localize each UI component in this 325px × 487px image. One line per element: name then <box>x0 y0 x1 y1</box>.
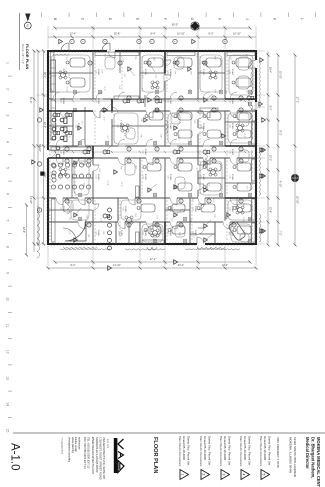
svg-text:8'-4": 8'-4" <box>150 32 155 36</box>
svg-text:1: 1 <box>77 128 79 129</box>
scattered dim texts <box>64 53 252 239</box>
svg-text:9'-2": 9'-2" <box>106 135 108 139</box>
project address <box>289 437 297 477</box>
dashed rugs <box>51 55 253 242</box>
exam tables <box>66 58 251 234</box>
svg-text:EXAM: EXAM <box>144 230 147 236</box>
svg-text:6'-8": 6'-8" <box>190 219 192 223</box>
svg-text:1: 1 <box>127 225 129 226</box>
svg-text:3'-0": 3'-0" <box>65 57 67 61</box>
svg-text:1: 1 <box>179 149 181 150</box>
exterior wall hatch <box>47 50 258 246</box>
svg-text:8'-4": 8'-4" <box>117 201 119 205</box>
svg-text:22'-8": 22'-8" <box>22 227 25 233</box>
svg-text:1: 1 <box>127 149 129 150</box>
svg-text:1: 1 <box>70 41 72 42</box>
petal tables <box>59 71 244 237</box>
svg-text:5'-10": 5'-10" <box>106 181 108 186</box>
svg-text:MOKENA MEDICAL CENTER: MOKENA MEDICAL CENTER <box>316 437 321 487</box>
svg-text:8'-4": 8'-4" <box>65 120 67 124</box>
svg-text:16'-4": 16'-4" <box>269 67 272 73</box>
svg-text:CLR: CLR <box>190 71 192 75</box>
svg-text:8'-2": 8'-2" <box>279 130 283 135</box>
svg-text:Dr. Bhargavi Nathem,: Dr. Bhargavi Nathem, <box>310 437 315 478</box>
copyright <box>61 437 64 455</box>
svg-text:9'-2": 9'-2" <box>208 32 213 36</box>
svg-text:EXAM: EXAM <box>124 206 127 212</box>
svg-text:4: 4 <box>241 474 245 476</box>
svg-text:12'-6": 12'-6" <box>227 70 229 75</box>
top dimension lines <box>257 51 300 247</box>
dark wall chunks <box>48 51 256 244</box>
svg-text:22'-10": 22'-10" <box>296 196 300 204</box>
svg-text:12'-6": 12'-6" <box>195 53 197 58</box>
svg-text:9'-10": 9'-10" <box>279 181 283 188</box>
svg-text:12'-6": 12'-6" <box>160 230 162 235</box>
svg-text:1: 1 <box>150 41 152 42</box>
svg-text:9'-2": 9'-2" <box>155 87 157 91</box>
svg-text:L: L <box>300 18 304 20</box>
svg-text:14'-10": 14'-10" <box>29 196 33 204</box>
svg-text:9: 9 <box>6 272 10 274</box>
svg-text:1: 1 <box>127 161 129 162</box>
svg-text:5'-10": 5'-10" <box>118 231 120 236</box>
svg-text:12'-6": 12'-6" <box>120 182 122 187</box>
leader lines <box>75 63 213 240</box>
svg-text:6'-8": 6'-8" <box>212 198 214 202</box>
dashed casework <box>50 56 227 242</box>
svg-text:8: 8 <box>6 246 10 248</box>
svg-text:8'-4": 8'-4" <box>208 182 210 186</box>
svg-text:3'-0": 3'-0" <box>229 56 231 60</box>
svg-text:31'-9": 31'-9" <box>29 97 33 104</box>
svg-text:11: 11 <box>6 324 10 328</box>
svg-text:TEL: 630.555.0200 EXT 12: TEL: 630.555.0200 EXT 12 <box>87 437 91 469</box>
svg-text:EXAM: EXAM <box>169 123 172 129</box>
svg-text:EXAM: EXAM <box>97 69 100 75</box>
svg-text:1: 1 <box>87 161 89 162</box>
svg-text:1: 1 <box>155 149 157 150</box>
svg-text:1: 1 <box>73 240 75 241</box>
dashed equipment clouds <box>63 57 249 242</box>
svg-text:2: 2 <box>6 88 10 90</box>
casework along bottom wall <box>51 60 56 140</box>
svg-text:1: 1 <box>179 161 181 162</box>
svg-text:1: 1 <box>102 110 104 111</box>
casework counters <box>51 52 256 244</box>
svg-text:1: 1 <box>147 100 149 101</box>
svg-text:12'-6": 12'-6" <box>64 198 66 203</box>
svg-text:27'-2": 27'-2" <box>150 257 157 261</box>
svg-text:3: 3 <box>221 474 225 476</box>
svg-text:1: 1 <box>179 110 181 111</box>
svg-text:1: 1 <box>203 240 205 241</box>
left grid diamond bubble <box>191 22 200 31</box>
svg-text:VRA PROJECT # 0735: VRA PROJECT # 0735 <box>276 437 280 468</box>
svg-text:15: 15 <box>6 429 10 433</box>
svg-text:EXAM: EXAM <box>231 123 234 129</box>
svg-text:WWW.VRAARCHITECTS.COM: WWW.VRAARCHITECTS.COM <box>91 437 95 474</box>
firm services <box>68 437 81 463</box>
svg-text:1: 1 <box>6 62 10 64</box>
svg-text:27'-2": 27'-2" <box>296 97 300 104</box>
title block divider line <box>13 432 325 434</box>
svg-text:A1: A1 <box>26 24 30 28</box>
svg-text:8'-4": 8'-4" <box>178 232 180 236</box>
svg-text:15'-8": 15'-8" <box>114 32 121 36</box>
svg-text:13: 13 <box>6 376 10 380</box>
svg-text:CLR: CLR <box>152 57 154 61</box>
svg-text:12'-4": 12'-4" <box>70 32 77 36</box>
svg-text:52'-10": 52'-10" <box>38 144 41 152</box>
svg-text:EXAM: EXAM <box>169 69 172 75</box>
svg-text:1: 1 <box>173 187 175 188</box>
svg-text:EXAM: EXAM <box>97 230 100 236</box>
svg-text:14: 14 <box>6 402 10 406</box>
svg-text:9'-2": 9'-2" <box>191 198 193 202</box>
svg-text:Plan Check Corrections: Plan Check Corrections <box>219 436 223 467</box>
svg-text:9'-2": 9'-2" <box>245 54 247 58</box>
svg-text:EXAM: EXAM <box>119 123 122 129</box>
svg-text:10'-10": 10'-10" <box>279 71 283 79</box>
left dimension lines <box>48 23 256 50</box>
svg-text:5'-10": 5'-10" <box>242 217 244 222</box>
svg-text:12'-6": 12'-6" <box>269 207 272 213</box>
svg-text:1: 1 <box>65 149 67 150</box>
svg-text:18'-4": 18'-4" <box>43 72 46 78</box>
svg-text:1: 1 <box>103 41 105 42</box>
svg-text:12'-6": 12'-6" <box>117 216 119 221</box>
lavatory cluster <box>52 118 67 158</box>
svg-text:4: 4 <box>6 141 10 143</box>
reception desk <box>65 220 86 241</box>
svg-text:60'-0": 60'-0" <box>172 23 179 27</box>
svg-text:3'-0": 3'-0" <box>123 74 125 78</box>
svg-text:8'-4": 8'-4" <box>214 56 216 60</box>
svg-text:1: 1 <box>212 98 214 99</box>
svg-text:1: 1 <box>175 63 177 64</box>
svg-text:1: 1 <box>221 136 223 137</box>
exterior wall <box>48 51 256 244</box>
svg-text:MOKENA, ILLINOIS 60448: MOKENA, ILLINOIS 60448 <box>289 437 293 474</box>
svg-text:EXAM: EXAM <box>169 174 172 180</box>
svg-text:EXAM: EXAM <box>231 174 234 180</box>
dark square tag <box>40 172 44 176</box>
drawing title arrow bubble <box>24 14 31 29</box>
svg-text:5'-10": 5'-10" <box>99 218 101 223</box>
svg-text:3'-0": 3'-0" <box>80 121 82 125</box>
svg-text:EXAM: EXAM <box>144 174 147 180</box>
sheet number <box>9 443 21 471</box>
svg-text:A-1.0: A-1.0 <box>9 443 21 471</box>
chairs row at waiting wall <box>108 208 112 250</box>
svg-text:1: 1 <box>212 149 214 150</box>
svg-text:1: 1 <box>179 201 181 202</box>
secondary partitions <box>48 51 256 244</box>
svg-text:VRA ARCHITECTS LTD. SUITE 200: VRA ARCHITECTS LTD. SUITE 200 <box>102 437 106 479</box>
svg-text:9'-2": 9'-2" <box>141 75 143 79</box>
interior dim strings <box>51 100 253 153</box>
svg-text:1: 1 <box>239 149 241 150</box>
svg-text:1: 1 <box>155 98 157 99</box>
svg-text:EXAM: EXAM <box>202 69 205 75</box>
svg-text:12'-6": 12'-6" <box>68 74 70 79</box>
svg-text:5'-10": 5'-10" <box>177 58 179 63</box>
svg-text:6'-8": 6'-8" <box>98 168 100 172</box>
svg-text:1: 1 <box>155 225 157 226</box>
svg-text:6'-8": 6'-8" <box>154 74 156 78</box>
svg-text:6'-8": 6'-8" <box>243 230 245 234</box>
svg-text:12'-2": 12'-2" <box>43 122 46 128</box>
svg-text:9'-2": 9'-2" <box>103 117 105 121</box>
svg-text:1: 1 <box>203 190 205 191</box>
room labels <box>51 69 234 236</box>
svg-text:CLR: CLR <box>193 120 195 124</box>
firm address <box>83 437 106 480</box>
svg-text:© Copyright 2006: © Copyright 2006 <box>61 437 64 455</box>
svg-text:3: 3 <box>6 115 10 117</box>
door tags below plan <box>37 118 41 212</box>
left zone ruler letters <box>26 13 316 21</box>
svg-text:1: 1 <box>203 163 205 164</box>
svg-text:19110 SOUTH 88TH AVENUE: 19110 SOUTH 88TH AVENUE <box>293 437 297 477</box>
right dimension lines <box>47 246 258 270</box>
svg-text:EXAM: EXAM <box>231 206 234 212</box>
svg-text:1: 1 <box>143 120 145 121</box>
svg-text:10: 10 <box>6 297 10 301</box>
svg-text:CLR: CLR <box>224 216 226 220</box>
svg-text:1: 1 <box>239 201 241 202</box>
logo R <box>118 452 124 459</box>
svg-text:EXAM: EXAM <box>231 230 234 236</box>
door openings and swings <box>48 51 256 244</box>
svg-text:7: 7 <box>6 220 10 222</box>
logo bar <box>114 438 118 473</box>
svg-text:12: 12 <box>6 350 10 354</box>
svg-text:5'-10": 5'-10" <box>245 88 247 93</box>
svg-text:1: 1 <box>203 63 205 64</box>
svg-text:1: 1 <box>179 225 181 226</box>
svg-text:10'-2": 10'-2" <box>269 155 272 161</box>
floor plan group <box>47 43 264 250</box>
svg-text:6: 6 <box>6 193 10 195</box>
svg-text:EXAM: EXAM <box>169 230 172 236</box>
title underline <box>19 13 21 70</box>
drawing title text <box>21 44 30 69</box>
svg-text:development consulting: development consulting <box>68 437 71 463</box>
sheet title <box>152 437 158 473</box>
svg-text:1: 1 <box>223 41 225 42</box>
svg-text:5'-10": 5'-10" <box>209 70 211 75</box>
svg-text:10'-10": 10'-10" <box>233 32 241 36</box>
svg-text:3'-0": 3'-0" <box>136 201 138 205</box>
svg-text:Medical Director: Medical Director <box>305 437 310 469</box>
svg-text:5'-10": 5'-10" <box>177 135 179 140</box>
svg-text:1: 1 <box>203 100 205 101</box>
svg-text:9'-2": 9'-2" <box>170 218 172 222</box>
svg-text:EXAM: EXAM <box>169 206 172 212</box>
keynote triangles right dims <box>108 260 178 271</box>
svg-text:8'-4": 8'-4" <box>250 72 252 76</box>
revision entries <box>178 436 271 480</box>
svg-text:CLR: CLR <box>134 165 136 169</box>
svg-text:9'-2": 9'-2" <box>227 232 229 236</box>
svg-text:1718 WEST JOLIET STREET ROAD: 1718 WEST JOLIET STREET ROAD <box>98 437 102 480</box>
logo A <box>118 461 124 473</box>
svg-text:SCALE: 1/4" = 1'-0": SCALE: 1/4" = 1'-0" <box>21 44 24 64</box>
svg-text:1: 1 <box>173 128 175 129</box>
svg-text:5: 5 <box>261 474 265 476</box>
svg-text:Plan Check Corrections: Plan Check Corrections <box>199 436 203 467</box>
svg-text:1: 1 <box>127 69 129 70</box>
project number <box>276 437 280 468</box>
svg-text:1: 1 <box>118 63 120 64</box>
svg-text:2: 2 <box>201 474 205 476</box>
top grid bubble <box>291 174 299 182</box>
svg-text:8'-0": 8'-0" <box>269 106 272 111</box>
svg-text:FAX: 630.555.0201 EXT 13: FAX: 630.555.0201 EXT 13 <box>83 437 87 469</box>
entry door bulges <box>61 43 110 51</box>
corridor and column walls <box>48 51 256 244</box>
svg-text:1: 1 <box>81 41 83 42</box>
svg-text:16'-10": 16'-10" <box>177 32 185 36</box>
svg-text:1: 1 <box>239 161 241 162</box>
svg-text:6'-8": 6'-8" <box>188 89 190 93</box>
svg-text:NAPERVILLE ILLINOIS 60540: NAPERVILLE ILLINOIS 60540 <box>95 437 99 473</box>
svg-text:6'-8": 6'-8" <box>123 133 125 137</box>
logo V <box>118 439 124 449</box>
svg-text:1: 1 <box>155 161 157 162</box>
svg-text:EXAM: EXAM <box>144 69 147 75</box>
svg-text:EST. 1974: EST. 1974 <box>106 439 108 449</box>
svg-text:5: 5 <box>6 167 10 169</box>
svg-text:1: 1 <box>147 190 149 191</box>
door tag bubbles <box>65 61 243 227</box>
svg-text:12'-6": 12'-6" <box>243 133 245 138</box>
svg-text:EXAM: EXAM <box>231 69 234 75</box>
svg-text:3'-0": 3'-0" <box>192 235 194 239</box>
svg-text:1: 1 <box>127 98 129 99</box>
svg-text:G: G <box>190 18 194 21</box>
svg-text:F: F <box>163 18 167 20</box>
svg-text:12'-6": 12'-6" <box>195 167 197 172</box>
svg-text:Plan Check Corrections: Plan Check Corrections <box>259 436 263 467</box>
svg-text:1: 1 <box>137 41 139 42</box>
svg-text:EXAM: EXAM <box>202 174 205 180</box>
partial lower dim <box>22 204 28 257</box>
svg-text:8'-4": 8'-4" <box>101 69 103 73</box>
door tags left of plan <box>59 39 227 43</box>
svg-text:1: 1 <box>259 60 261 61</box>
svg-text:EXAM: EXAM <box>202 123 205 129</box>
angled table <box>228 221 247 241</box>
keynote triangles inside <box>73 58 264 242</box>
svg-text:8'-4": 8'-4" <box>118 86 120 90</box>
svg-text:1: 1 <box>187 69 189 70</box>
svg-text:1: 1 <box>87 149 89 150</box>
svg-text:1: 1 <box>147 63 149 64</box>
svg-text:5'-10": 5'-10" <box>66 87 68 92</box>
svg-text:1: 1 <box>207 201 209 202</box>
svg-text:CLR: CLR <box>224 90 226 94</box>
svg-text:EXAM: EXAM <box>97 174 100 180</box>
svg-text:3'-0": 3'-0" <box>68 134 70 138</box>
toilets <box>53 96 254 218</box>
svg-text:Plan Check Corrections: Plan Check Corrections <box>239 436 243 467</box>
svg-text:6'-8": 6'-8" <box>122 58 124 62</box>
svg-text:1: 1 <box>179 98 181 99</box>
svg-text:12'-6": 12'-6" <box>103 86 105 91</box>
clouds inside top wall <box>251 60 253 240</box>
svg-text:1: 1 <box>203 226 205 227</box>
svg-text:6'-8": 6'-8" <box>119 120 121 124</box>
svg-text:10'-2": 10'-2" <box>178 264 184 267</box>
bottom dimension lines <box>32 50 47 246</box>
svg-text:FLOOR PLAN: FLOOR PLAN <box>152 437 158 473</box>
svg-text:J: J <box>245 18 249 20</box>
svg-text:14'-10": 14'-10" <box>113 264 121 267</box>
svg-text:EXAM: EXAM <box>62 69 65 75</box>
svg-text:FLOOR PLAN: FLOOR PLAN <box>25 44 30 69</box>
svg-text:3'-0": 3'-0" <box>156 215 158 219</box>
svg-text:9'-2": 9'-2" <box>67 167 69 171</box>
svg-text:1: 1 <box>113 172 115 173</box>
revision clouds <box>53 54 261 250</box>
svg-text:3'-0": 3'-0" <box>141 88 143 92</box>
svg-text:CLR: CLR <box>160 134 162 138</box>
svg-text:7'-2": 7'-2" <box>279 230 283 235</box>
keynote triangles above plan <box>262 118 266 233</box>
svg-text:1: 1 <box>173 215 175 216</box>
svg-text:1: 1 <box>173 41 175 42</box>
overall bottom dimension line <box>29 50 35 253</box>
svg-text:Plan Check Corrections: Plan Check Corrections <box>178 436 182 467</box>
svg-text:6'-8": 6'-8" <box>68 231 70 235</box>
svg-text:1: 1 <box>88 63 90 64</box>
svg-text:1: 1 <box>155 110 157 111</box>
svg-text:EXAM: EXAM <box>194 206 197 212</box>
project name <box>305 437 321 487</box>
svg-text:1: 1 <box>87 225 89 226</box>
svg-text:12'-4": 12'-4" <box>222 264 228 267</box>
svg-text:1: 1 <box>73 215 75 216</box>
svg-text:5'-10": 5'-10" <box>176 167 178 172</box>
svg-text:9'-2": 9'-2" <box>104 54 106 58</box>
waiting room chairs <box>51 163 90 189</box>
svg-text:1: 1 <box>180 474 184 476</box>
cloud below plan <box>37 206 39 258</box>
svg-text:EXAM: EXAM <box>62 206 65 212</box>
sinks <box>74 90 252 243</box>
svg-text:8'-4": 8'-4" <box>249 167 251 171</box>
svg-text:CLR: CLR <box>102 231 104 235</box>
svg-text:CLR: CLR <box>86 215 88 219</box>
svg-text:1: 1 <box>239 110 241 111</box>
svg-text:8'-4": 8'-4" <box>134 213 136 217</box>
svg-text:1: 1 <box>65 161 67 162</box>
svg-text:1: 1 <box>212 110 214 111</box>
clouds outside right wall <box>60 249 240 251</box>
svg-text:CLR: CLR <box>83 183 85 187</box>
bottom zone ruler numbers <box>6 62 13 432</box>
svg-text:8'-2": 8'-2" <box>71 264 76 267</box>
svg-text:3'-0": 3'-0" <box>246 186 248 190</box>
